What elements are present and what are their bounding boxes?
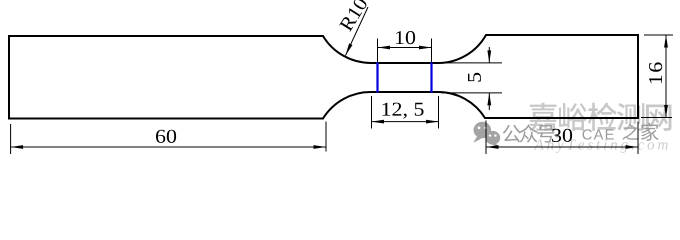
specimen outline <box>9 35 638 119</box>
dim 12,5 line <box>372 121 439 123</box>
dim 60 text <box>156 130 176 143</box>
dim 30 ext lines <box>486 121 638 155</box>
R10 leader line <box>346 7 369 56</box>
dim 10 text <box>396 31 415 44</box>
dim 5 text (rotated) <box>468 73 481 82</box>
dim 30 text <box>552 129 572 142</box>
dim 60 ext lines <box>11 122 326 155</box>
dim 30 line <box>486 146 638 148</box>
dim 5 ext lines <box>442 63 502 93</box>
dim 5 line + outside arrows <box>488 47 490 110</box>
dim 16 ext lines <box>641 35 673 118</box>
dim 16 text (rotated) <box>649 62 662 83</box>
gauge mark right (blue) <box>430 62 432 93</box>
watermark italic AnyTesting.com <box>534 139 668 152</box>
watermark big text 嘉峪检测网 <box>529 102 672 131</box>
gauge mark left (blue) <box>376 62 378 93</box>
R10 text (rotated) <box>339 0 366 32</box>
dim 12,5 text <box>383 103 424 119</box>
dim 16 line <box>665 35 667 118</box>
dim 10 ext lines <box>378 39 432 63</box>
dim 60 line <box>11 146 326 148</box>
dim 10 line <box>378 47 432 49</box>
dim 12,5 ext lines <box>372 96 439 129</box>
watermark wechat icon <box>473 122 500 148</box>
watermark 公众号·CAE之家 <box>503 123 659 143</box>
